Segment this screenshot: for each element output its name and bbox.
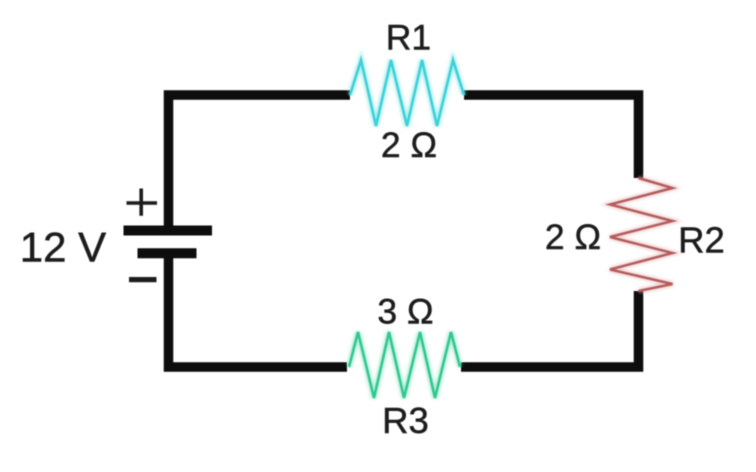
svg-text:12 V: 12 V [20, 224, 106, 271]
svg-text:R3: R3 [382, 400, 429, 441]
svg-text:2 Ω: 2 Ω [545, 217, 601, 257]
svg-text:3 Ω: 3 Ω [377, 292, 433, 332]
svg-text:2 Ω: 2 Ω [381, 125, 437, 165]
svg-text:R1: R1 [386, 17, 431, 57]
svg-text:R2: R2 [678, 220, 725, 261]
